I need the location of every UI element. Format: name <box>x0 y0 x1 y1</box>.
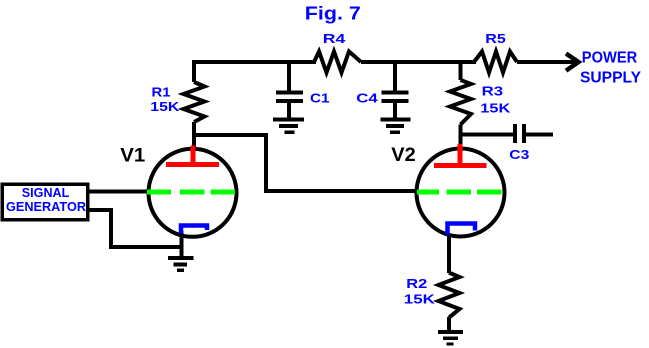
svg-text:V2: V2 <box>391 145 416 166</box>
svg-text:R5: R5 <box>485 31 506 46</box>
svg-text:V1: V1 <box>120 145 145 166</box>
svg-text:15K: 15K <box>404 291 436 306</box>
svg-text:15K: 15K <box>150 99 180 114</box>
svg-text:R4: R4 <box>323 31 347 46</box>
svg-text:R3: R3 <box>482 84 504 99</box>
svg-text:GENERATOR: GENERATOR <box>6 199 87 214</box>
svg-text:Fig. 7: Fig. 7 <box>305 4 361 24</box>
svg-text:C4: C4 <box>356 91 378 106</box>
svg-text:R2: R2 <box>406 276 427 291</box>
svg-text:SUPPLY: SUPPLY <box>580 69 641 86</box>
svg-text:R1: R1 <box>152 85 171 100</box>
svg-text:SIGNAL: SIGNAL <box>22 185 70 200</box>
svg-text:C1: C1 <box>310 91 330 106</box>
svg-text:15K: 15K <box>480 100 511 115</box>
svg-text:C3: C3 <box>509 147 529 162</box>
svg-text:POWER: POWER <box>582 50 638 67</box>
